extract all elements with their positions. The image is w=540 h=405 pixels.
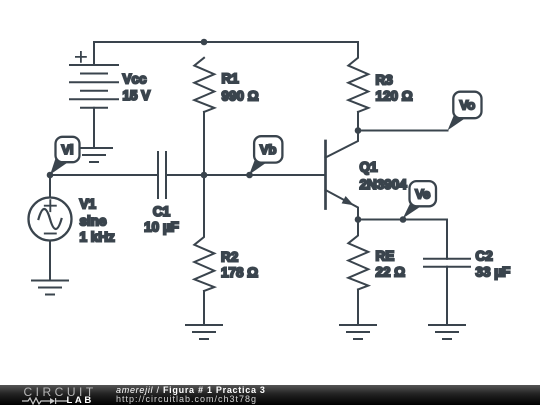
footer logo resistor-diode glyph	[22, 397, 68, 405]
node flag Vb	[249, 136, 282, 174]
wire: input net Vi to C1	[50, 174, 158, 176]
resistor R2	[194, 175, 214, 291]
junction node: Ve on emitter wire	[400, 216, 407, 223]
wire: C2 top lead	[446, 220, 448, 259]
svg-text:R2: R2	[221, 250, 238, 265]
resistor R3	[348, 42, 368, 112]
wire: battery negative lead	[93, 108, 95, 148]
capacitor C2	[424, 259, 470, 267]
ground (R2)	[186, 325, 222, 339]
footer logo CIRCUIT	[24, 387, 97, 398]
wire: R1 bottom lead	[203, 112, 205, 175]
junction node: R1 top at rail	[201, 39, 208, 46]
battery Vcc	[70, 52, 118, 108]
footer bar	[0, 385, 540, 405]
svg-text:C2: C2	[476, 249, 493, 264]
node flag Vo	[448, 92, 482, 131]
ground (V1)	[32, 281, 68, 295]
svg-text:C1: C1	[153, 204, 171, 219]
svg-text:RE: RE	[376, 249, 395, 264]
svg-text:R1: R1	[222, 71, 240, 86]
ground (battery)	[76, 148, 112, 162]
footer logo LAB	[67, 396, 94, 405]
wire: battery positive lead to top rail	[93, 42, 95, 65]
wire: collector output net	[358, 130, 448, 132]
svg-text:V1: V1	[80, 197, 97, 212]
wire: C2 bottom lead	[446, 267, 448, 325]
svg-text:990 Ω: 990 Ω	[222, 89, 259, 104]
svg-text:Q1: Q1	[360, 160, 379, 175]
wire: emitter net	[358, 219, 447, 221]
svg-text:33 µF: 33 µF	[476, 264, 511, 279]
wire: C1 to base net	[166, 174, 326, 176]
wire: top rail left segment (Vcc to R1)	[94, 41, 204, 43]
resistor RE	[348, 220, 368, 290]
svg-text:2N3904: 2N3904	[360, 177, 408, 192]
junction node: emitter / RE	[355, 216, 362, 223]
capacitor C1	[158, 152, 166, 198]
svg-text:178 Ω: 178 Ω	[221, 265, 258, 280]
svg-text:Vcc: Vcc	[123, 71, 148, 86]
footer line 1: author / title	[116, 386, 266, 395]
svg-text:Vo: Vo	[460, 98, 476, 113]
svg-text:120 Ω: 120 Ω	[376, 89, 413, 104]
footer line 2: url	[116, 395, 257, 404]
svg-text:15 V: 15 V	[123, 88, 151, 103]
svg-text:10 µF: 10 µF	[144, 219, 179, 234]
transistor Q1	[326, 131, 359, 220]
junction node: Vb on base wire	[246, 172, 253, 179]
junction node: Vi / V1 / input wire	[47, 172, 54, 179]
voltage source V1	[29, 175, 72, 281]
wire: RE bottom lead	[357, 290, 359, 326]
junction node: C1 / R1 / R2	[201, 172, 208, 179]
node flag Vi	[50, 137, 79, 175]
svg-text:22 Ω: 22 Ω	[376, 264, 406, 279]
wire: R2 bottom lead	[203, 291, 205, 325]
ground (C2)	[429, 325, 465, 339]
svg-text:Ve: Ve	[415, 186, 430, 201]
wire: R3 bottom lead	[357, 112, 359, 131]
junction node: collector / R3	[355, 127, 362, 134]
svg-text:Vb: Vb	[260, 142, 277, 157]
node flag Ve	[403, 181, 436, 218]
wire: top rail right segment (R1 to R3)	[204, 41, 358, 43]
svg-text:1 kHz: 1 kHz	[80, 230, 116, 245]
svg-text:R3: R3	[376, 73, 394, 88]
ground (RE)	[340, 325, 376, 339]
resistor R1	[194, 58, 214, 112]
svg-text:Vi: Vi	[61, 142, 73, 157]
svg-text:sine: sine	[80, 213, 108, 228]
